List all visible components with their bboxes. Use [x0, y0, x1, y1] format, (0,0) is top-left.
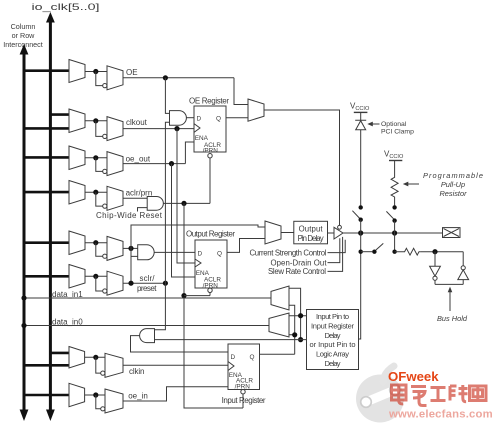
- wire pad net down to input branch: [359, 233, 361, 339]
- node junction aclr to output register: [181, 293, 186, 298]
- node Current Strength Control label: [250, 248, 327, 257]
- wire clkin row inverter elbow: [96, 357, 101, 373]
- mux M3A (oe_out row, first stage): [69, 146, 85, 170]
- mux M9 input path upper: [271, 286, 289, 310]
- svg-text:OE: OE: [126, 68, 138, 77]
- svg-text:data_in0: data_in0: [52, 317, 83, 326]
- mux M12B (oe_in row, programmable invert): [105, 389, 123, 413]
- mux M6A (sclr/preset row, first stage): [69, 265, 85, 289]
- transistor bus hold inverter B2: [430, 266, 441, 276]
- wire clkout net: [123, 128, 194, 130]
- wire chip-wide reset to G1: [138, 208, 148, 212]
- op-amp register U3 Input Register box: [228, 344, 260, 390]
- node junction pad and clamp column: [358, 230, 363, 235]
- power VCCIO pull-up label: [384, 150, 404, 161]
- wire M5A output: [85, 242, 107, 244]
- wire pad net horizontal: [343, 232, 443, 234]
- wire io_clk rail B top arrow: [46, 12, 55, 23]
- svg-text:clkin: clkin: [129, 367, 145, 376]
- wire switch S2 blade: [386, 211, 394, 219]
- node U2 ACLR pin label: [204, 276, 221, 283]
- and gate G0 (OE gating before OE register): [170, 111, 187, 126]
- and gate G3 (input register D gating, points left): [140, 329, 155, 343]
- wire aclr chain vertical: [184, 203, 243, 408]
- and gate G1 (aclr with chip-wide reset): [147, 197, 163, 211]
- svg-text:oe_in: oe_in: [128, 392, 148, 401]
- node U1 PRN bubble: [208, 154, 212, 158]
- and gate G2 (sync load/clear gating): [138, 245, 154, 260]
- wire U1 Q output to OE select mux: [226, 117, 248, 119]
- node B2 bubble: [433, 276, 437, 280]
- svg-text:oe_out: oe_out: [126, 155, 151, 164]
- wire input register feedback rail: [289, 305, 295, 354]
- wire stub to switch S3: [361, 251, 373, 253]
- wire sclr branch rail: [131, 225, 265, 283]
- wire data net to AND gate G2: [123, 247, 138, 249]
- wire clamp diode down to switch: [360, 130, 362, 206]
- wire aclr row inverter elbow: [96, 192, 103, 206]
- node U3 PRN bubble: [241, 390, 245, 394]
- pad bond pad symbol: [443, 228, 461, 238]
- mux M1A (OE row, first stage): [69, 60, 85, 83]
- wire M4A output: [85, 191, 107, 193]
- svg-text:sclr/: sclr/: [140, 274, 156, 283]
- wire M2A output: [85, 120, 107, 122]
- node junction sclr row: [93, 274, 98, 279]
- node Open-Drain Out label: [271, 258, 328, 267]
- mux M6B (sclr row, programmable invert): [107, 271, 123, 295]
- svg-text:Q: Q: [250, 354, 255, 361]
- node U3 ACLR pin label: [236, 378, 253, 385]
- svg-text:D: D: [231, 354, 236, 361]
- wire clkin net to input register clock: [123, 364, 228, 366]
- mux M4B (aclr row, programmable invert): [107, 186, 123, 210]
- wire clkout row inverter elbow: [96, 121, 103, 137]
- node junction oe_in row: [93, 392, 98, 397]
- mux M2A (clkout row, first stage): [69, 109, 85, 133]
- node M3B invert bubble: [103, 169, 107, 173]
- wire M6A output: [85, 275, 107, 277]
- mux M7 OE select: [248, 99, 264, 121]
- wire G1 output aclr/prn chain to OE register PRN: [163, 158, 210, 204]
- wire oe_in row inverter elbow: [96, 395, 101, 409]
- node switch S3 terminal: [372, 250, 376, 254]
- node junction clkout row: [93, 118, 98, 123]
- mux M1B (OE row, programmable invert): [107, 66, 123, 90]
- svg-text:Input Register: Input Register: [311, 321, 355, 330]
- node clkout label: [126, 118, 148, 127]
- node U1 ENA pin label: [195, 135, 209, 142]
- wire v1 rail G0 to AND G3: [155, 122, 170, 329]
- wire M8 output to delay box: [281, 232, 294, 234]
- node junction aclr row: [93, 190, 98, 195]
- svg-text:Input Register: Input Register: [222, 396, 266, 405]
- resistor R1 programmable pull-up: [391, 175, 398, 198]
- svg-text:Output: Output: [299, 225, 324, 234]
- wire delay box to buffer: [328, 232, 335, 234]
- node junction OE row: [93, 69, 98, 74]
- node junction sclr at v1: [163, 281, 168, 286]
- svg-text:Q: Q: [217, 251, 222, 258]
- op-amp register U2 Output Register box: [195, 240, 227, 288]
- resistor R2 bus hold: [395, 248, 421, 255]
- node junction data_in0 on rail: [21, 323, 26, 328]
- node M11B invert bubble: [101, 371, 105, 375]
- svg-text:data_in1: data_in1: [52, 290, 83, 299]
- mux M11A (clkin row, first stage): [69, 347, 85, 369]
- node junction data out row: [93, 240, 98, 245]
- wire B3 to bottom: [462, 280, 464, 285]
- wire oe_out row inverter elbow: [96, 158, 103, 172]
- svg-text:Logic Array: Logic Array: [316, 350, 349, 359]
- wire VCCIO to clamp diode: [360, 112, 362, 120]
- mux M11B (clkin row, programmable invert): [105, 353, 123, 377]
- node Optional PCI Clamp label with arrow: [371, 123, 380, 125]
- wire oe_out net: [123, 163, 185, 165]
- wire aclr branch to output register PRN: [184, 293, 210, 296]
- svg-text:Column: Column: [11, 22, 36, 31]
- diode D1 PCI clamp: [355, 120, 366, 130]
- wire clock rail clkout to output register clock: [177, 129, 195, 263]
- wire io_clk rail B bottom arrow: [46, 410, 55, 422]
- node oe_in label: [128, 392, 148, 401]
- wire OE bypass to select mux: [234, 78, 248, 105]
- node B3 bubble: [461, 266, 465, 270]
- node switch S2 bottom terminal: [392, 218, 396, 222]
- node U3 PRN pin label: [235, 383, 251, 390]
- power VCCIO pull-up bar: [389, 160, 402, 162]
- node U2 ENA pin label: [196, 270, 210, 277]
- node junction feedback rail: [292, 332, 297, 337]
- wire G0 output to OE register D: [186, 117, 194, 119]
- svg-text:OE Register: OE Register: [189, 97, 229, 106]
- node U2 PRN bubble: [208, 288, 212, 292]
- wire interconnect bus rail A: [23, 54, 26, 411]
- node Programmable Pull-Up Resistor label with arrow: [406, 183, 419, 185]
- node oe_out label: [126, 155, 151, 164]
- wire resistor to switch S2: [394, 198, 396, 206]
- node U3 D pin label: [231, 354, 236, 361]
- mux M12A (oe_in row, first stage): [69, 383, 85, 406]
- svg-text:Optional: Optional: [381, 121, 407, 128]
- node U2 Q pin label: [217, 251, 222, 258]
- svg-text:www.elecfans.com: www.elecfans.com: [388, 409, 493, 421]
- wire clkin row stub from interconnect: [23, 364, 70, 367]
- wire data_in0 net: [24, 325, 269, 327]
- node junction data net: [128, 246, 133, 251]
- wire sclr row inverter elbow: [96, 276, 103, 291]
- node Output Register label: [186, 230, 235, 239]
- node junction aclr chain: [181, 201, 186, 206]
- node U1 D pin label: [197, 116, 202, 123]
- wire G3 lower input from delay rail: [155, 339, 307, 341]
- node junction bus hold branch: [392, 250, 396, 254]
- wire sclr/preset net: [123, 282, 165, 284]
- wire M7 output to output buffer control: [264, 110, 340, 225]
- wire S2 to pad net: [394, 221, 396, 233]
- transistor bus hold inverter B3: [458, 270, 469, 280]
- node M4B invert bubble: [103, 204, 107, 208]
- mux M8 output data select: [265, 221, 281, 244]
- svg-text:Pin Delay: Pin Delay: [298, 234, 324, 243]
- wire bus hold bottom: [435, 283, 463, 285]
- node clkin label: [129, 367, 145, 376]
- wire io_clk bus rail B: [49, 21, 52, 410]
- node U3 Q pin label: [250, 354, 255, 361]
- node M12B invert bubble: [101, 407, 105, 411]
- wire input delay outputs rail: [289, 288, 307, 339]
- power VCCIO clamp label: [350, 102, 370, 113]
- svg-text:OFweek: OFweek: [388, 369, 439, 384]
- svg-text:Output Register: Output Register: [186, 230, 235, 239]
- node junction oe_out row: [93, 155, 98, 160]
- svg-text:Bus Hold: Bus Hold: [437, 314, 468, 323]
- wire clkin row stub from io_clk: [49, 352, 69, 355]
- mux M5A (data out row, first stage): [69, 231, 85, 255]
- node M2B invert bubble: [103, 134, 107, 138]
- mux M10 input path lower: [269, 313, 289, 337]
- svg-text:or Row: or Row: [12, 31, 36, 40]
- wire sclr/preset row input stub: [23, 275, 69, 278]
- node B1 enable bubble: [338, 225, 342, 229]
- wire Slew Rate Control: [328, 237, 343, 272]
- node Input Register label: [222, 396, 266, 405]
- svg-text:Slew Rate Control: Slew Rate Control: [268, 267, 326, 276]
- node OE label: [126, 68, 138, 77]
- node U1 ACLR pin label: [204, 142, 221, 149]
- wire bus hold right branch: [462, 252, 464, 266]
- box Output Pin Delay: [294, 221, 328, 244]
- node junction OE to AND: [163, 75, 168, 80]
- node aclr/prn label: [126, 189, 153, 198]
- wire switch S1 blade: [352, 211, 360, 219]
- wire M1A output: [85, 71, 107, 73]
- wire OE down to G0 input: [165, 78, 169, 114]
- node Chip-Wide Reset label: [96, 211, 163, 220]
- node U3 clock triangle: [228, 362, 234, 371]
- svg-text:Delay: Delay: [325, 359, 341, 368]
- svg-text:Q: Q: [216, 116, 221, 123]
- wire Open-Drain Out: [328, 238, 340, 262]
- svg-text:Programmable: Programmable: [423, 171, 483, 180]
- wire G3 output to input register D: [131, 336, 229, 352]
- svg-text:D: D: [198, 251, 203, 258]
- node switch S1 top terminal: [359, 205, 363, 209]
- wire OE net to right: [123, 77, 234, 79]
- svg-text:Chip-Wide Reset: Chip-Wide Reset: [96, 211, 163, 220]
- svg-text:Current Strength Control: Current Strength Control: [250, 248, 327, 257]
- wire VCCIO to resistor R1: [394, 161, 396, 176]
- node junction input branch: [359, 250, 363, 254]
- node sclr/preset label: [137, 274, 157, 293]
- svg-text:Open-Drain Out: Open-Drain Out: [271, 258, 328, 267]
- wire ena rail oe_out to output register ENA: [172, 164, 196, 277]
- node junction oe_out to ena rail: [169, 161, 174, 166]
- node junction pad and pull-up column: [392, 230, 397, 235]
- node junction clkin row: [93, 355, 98, 360]
- node M6B invert bubble: [103, 289, 107, 293]
- wire U2 Q to output data mux: [227, 239, 265, 253]
- svg-text:D: D: [197, 116, 202, 123]
- node switch S1 bottom terminal: [359, 218, 363, 222]
- wire bus hold top: [420, 251, 463, 253]
- wire oe_in row input stub: [23, 394, 70, 397]
- wire oe_out to OE register ENA: [185, 142, 194, 164]
- node junction bus hold: [432, 249, 437, 254]
- mux M4A (aclr/prn row, first stage): [69, 181, 85, 205]
- node U3 ENA pin label: [229, 372, 243, 379]
- node U2 D pin label: [198, 251, 203, 258]
- wire Current Strength Control: [328, 240, 346, 253]
- node U2 clock triangle: [195, 259, 201, 267]
- svg-text:Delay: Delay: [325, 331, 341, 340]
- wire aclr net to AND gate: [123, 197, 147, 199]
- node junction data_in1 on rail: [21, 295, 26, 300]
- watermark chinese characters: [392, 385, 487, 406]
- node M1B invert bubble: [103, 84, 107, 88]
- svg-text:clkout: clkout: [126, 118, 148, 127]
- wire interconnect rail A bottom arrow: [20, 410, 29, 422]
- wire clkout row stub from io_clk: [49, 113, 69, 116]
- node U2 PRN pin label: [203, 283, 219, 290]
- svg-text:or Input Pin to: or Input Pin to: [310, 340, 356, 349]
- wire S1 to pad net: [360, 220, 362, 233]
- power VCCIO clamp bar: [354, 111, 368, 113]
- mux M3B (oe_out row, programmable invert): [107, 152, 123, 176]
- mux M5B (data row, programmable invert): [107, 236, 123, 260]
- svg-text:PCI Clamp: PCI Clamp: [381, 129, 414, 136]
- node junction clkout to clock rail: [174, 126, 179, 131]
- node junction sclr at branch: [128, 281, 133, 286]
- node U1 PRN pin label: [203, 148, 219, 155]
- wire U3 Q output to feedback rail: [260, 353, 295, 355]
- wire M12A output: [85, 394, 105, 396]
- wire data row inverter elbow: [96, 243, 103, 257]
- wire switch S3 blade: [376, 243, 383, 250]
- node OE Register label: [189, 97, 229, 106]
- node M5B invert bubble: [103, 254, 107, 258]
- svg-text:Resistor: Resistor: [439, 189, 467, 198]
- node Column or Row Interconnect label: [3, 22, 43, 49]
- wire clkout row stub from interconnect: [23, 127, 69, 130]
- watermark elecfans logo: [356, 366, 404, 423]
- node io_clk[5..0] label: [32, 2, 100, 12]
- node U1 Q pin label: [216, 116, 221, 123]
- wire interconnect rail A top arrow: [20, 44, 29, 55]
- wire data_in1 net: [24, 297, 271, 299]
- svg-text:preset: preset: [137, 284, 157, 293]
- op-amp register U1 OE Register box: [194, 106, 226, 152]
- node junction delay rail upper: [298, 313, 303, 318]
- node switch S2 top terminal: [392, 205, 396, 209]
- wire oe_in net to input register ENA: [123, 387, 228, 401]
- wire oe_out row input stub: [23, 156, 69, 159]
- node U1 clock triangle: [194, 124, 200, 133]
- wire OE row inverter elbow: [96, 72, 103, 86]
- node data_in0 label: [52, 317, 83, 326]
- wire pad net to bus hold branch: [394, 233, 396, 252]
- box Input Pin Delay: [307, 310, 359, 370]
- node Bus Hold label with arrow: [449, 290, 451, 312]
- node data_in1 label: [52, 290, 83, 299]
- wire OE row input stub: [23, 69, 69, 72]
- wire M11A output: [85, 356, 105, 358]
- node junction delay rail lower: [298, 337, 303, 342]
- transistor output buffer B1: [334, 227, 343, 239]
- wire G2 output to output register D: [154, 251, 195, 253]
- wire M3A output: [85, 157, 107, 159]
- svg-text:io_clk[5..0]: io_clk[5..0]: [32, 2, 100, 12]
- wire data-out row input stub: [23, 241, 69, 244]
- wire bus hold left branch: [434, 252, 436, 267]
- wire B2 to bottom: [434, 280, 436, 284]
- mux M2B (clkout row, programmable invert): [107, 117, 123, 141]
- node Slew Rate Control label: [268, 267, 326, 276]
- svg-text:Input Pin to: Input Pin to: [316, 312, 349, 321]
- wire aclr/prn row input stub: [23, 191, 69, 194]
- svg-text:Pull-Up: Pull-Up: [441, 180, 465, 189]
